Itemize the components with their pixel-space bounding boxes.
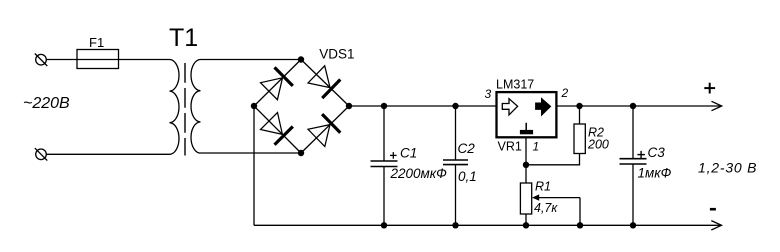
node: C3 bottom junction bbox=[630, 222, 636, 228]
svg-text:0,1: 0,1 bbox=[458, 169, 477, 184]
wire: positive rail from LM317 output to + terminal bbox=[557, 105, 722, 107]
wire: terminal X1 to transformer primary top bbox=[46, 59, 169, 61]
svg-text:2: 2 bbox=[561, 86, 569, 100]
R1 wiper arrow and wire to negative rail bbox=[532, 194, 580, 225]
svg-text:~220В: ~220В bbox=[23, 95, 70, 112]
capacitor C3 (electrolytic 1мкФ) bbox=[620, 106, 647, 225]
op-amp style regulator VR1 LM317 box bbox=[497, 92, 557, 137]
svg-text:F1: F1 bbox=[89, 35, 104, 50]
wire: LM317 adj pin down to junction bbox=[525, 137, 527, 165]
LM317 adjust symbol bbox=[520, 123, 533, 134]
node: bridge bottom junction bbox=[298, 150, 304, 156]
wire: secondary top to bridge top node bbox=[201, 59, 302, 61]
output + arrow bbox=[712, 101, 722, 110]
capacitor C1 (electrolytic 2200мкФ) bbox=[371, 106, 398, 225]
transformer T1 secondary winding bbox=[191, 60, 201, 154]
transformer T1 core bbox=[184, 63, 186, 156]
LM317 input hollow arrow bbox=[502, 99, 517, 115]
diode VD2 (upper-right arm, cathode at right node) bbox=[308, 66, 340, 98]
label + of C3 bbox=[637, 151, 645, 159]
node: C1 bottom junction bbox=[381, 222, 387, 228]
svg-text:C3: C3 bbox=[648, 145, 666, 160]
terminal X1 (input top) bbox=[35, 54, 48, 67]
svg-text:3: 3 bbox=[485, 87, 492, 101]
svg-text:1: 1 bbox=[533, 140, 540, 154]
label + of C1 bbox=[390, 152, 397, 159]
bridge arm wires bbox=[254, 60, 349, 154]
node: C3 top junction bbox=[630, 103, 636, 109]
node: bridge top junction bbox=[298, 56, 304, 62]
svg-text:2200мкФ: 2200мкФ bbox=[390, 166, 448, 181]
wire: positive rail from bridge to LM317 input bbox=[349, 105, 496, 107]
node: bridge left junction bbox=[251, 103, 257, 109]
node: R1 bottom junction bbox=[523, 222, 529, 228]
resistor R2 (200) bbox=[574, 106, 585, 154]
node: adj junction bbox=[523, 162, 529, 168]
svg-text:1,2-30 В: 1,2-30 В bbox=[698, 160, 757, 176]
node: R2 top junction bbox=[576, 103, 582, 109]
wire: adj junction to R2 bottom bbox=[526, 154, 580, 165]
diode VD4 (lower-right arm, cathode at right node) bbox=[308, 114, 340, 146]
node: C2 top junction bbox=[452, 103, 458, 109]
wire: bridge arm top-right bbox=[301, 60, 349, 107]
wire: secondary bottom to bridge bottom node bbox=[201, 152, 302, 154]
node: C2 bottom junction bbox=[452, 222, 458, 228]
label - output bbox=[710, 208, 716, 211]
fuse F1 bbox=[77, 50, 119, 69]
svg-text:T1: T1 bbox=[169, 24, 198, 52]
wire: bridge left node down to negative rail bbox=[253, 106, 255, 225]
svg-text:200: 200 bbox=[587, 138, 609, 152]
diode VD3 (lower-left arm, anode at left node) bbox=[261, 113, 293, 145]
svg-text:1мкФ: 1мкФ bbox=[638, 166, 672, 181]
diode VD1 (upper-left arm, anode at left node) bbox=[261, 67, 293, 99]
wire: bridge arm left-top bbox=[254, 60, 301, 107]
label + output bbox=[704, 83, 715, 94]
wire: terminal X2 to transformer primary bottom bbox=[46, 153, 169, 155]
node: R1 wiper bottom junction bbox=[577, 222, 583, 228]
terminal X2 (input bottom) bbox=[35, 148, 48, 161]
capacitor C2 (0,1) bbox=[443, 106, 468, 225]
output - arrow bbox=[711, 221, 721, 230]
node: bridge right junction bbox=[346, 103, 352, 109]
svg-text:VR1: VR1 bbox=[498, 140, 522, 154]
wire: negative bottom rail bbox=[254, 224, 722, 226]
LM317 output solid arrow bbox=[536, 98, 551, 115]
svg-text:R1: R1 bbox=[535, 180, 551, 194]
svg-text:LM317: LM317 bbox=[496, 78, 534, 92]
wire: bridge arm bottom-right bbox=[301, 106, 349, 153]
wire: bridge arm left-bottom bbox=[254, 106, 301, 153]
svg-text:C2: C2 bbox=[458, 141, 476, 156]
node: C1 top junction bbox=[381, 103, 387, 109]
potentiometer R1 (4,7к) bbox=[520, 165, 531, 226]
svg-text:4,7к: 4,7к bbox=[534, 201, 558, 215]
svg-text:C1: C1 bbox=[400, 146, 417, 161]
svg-text:VDS1: VDS1 bbox=[319, 47, 354, 62]
transformer T1 primary winding bbox=[170, 60, 180, 155]
